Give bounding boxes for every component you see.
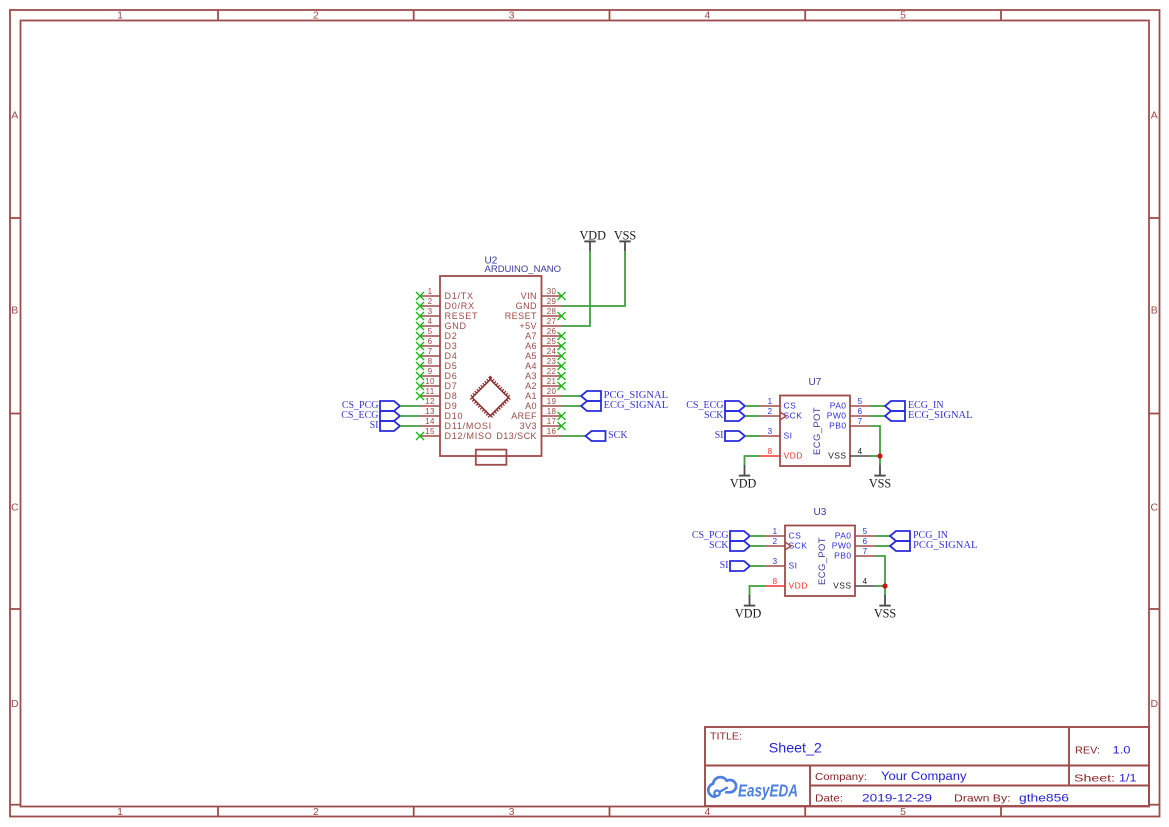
svg-text:5: 5 [900, 806, 906, 818]
svg-text:3V3: 3V3 [520, 421, 537, 431]
svg-text:22: 22 [547, 367, 557, 376]
svg-text:A1: A1 [525, 391, 537, 401]
svg-text:27: 27 [547, 317, 557, 326]
svg-text:7: 7 [428, 347, 433, 356]
svg-text:CS: CS [789, 531, 802, 541]
svg-text:Sheet:: Sheet: [1074, 773, 1115, 785]
wire CS_ECG flag to U7 [745, 405, 760, 407]
chip glyph of U2 [471, 378, 510, 417]
svg-text:A7: A7 [525, 331, 537, 341]
svg-text:8: 8 [768, 447, 773, 456]
net flag CS_ECG (left of U2) [341, 410, 400, 421]
net flag SI (left of U3) [720, 560, 750, 571]
svg-text:9: 9 [428, 367, 433, 376]
power flag VSS (U3) [874, 595, 897, 621]
svg-text:5: 5 [428, 327, 433, 336]
svg-text:4: 4 [863, 577, 868, 586]
svg-text:7: 7 [858, 417, 863, 426]
svg-text:U7: U7 [809, 377, 822, 388]
svg-text:+5V: +5V [519, 321, 537, 331]
svg-text:D0/RX: D0/RX [445, 301, 475, 311]
pin 14 (D11/MOSI) of U2 [420, 417, 492, 431]
svg-text:2: 2 [768, 407, 773, 416]
svg-text:SCK: SCK [709, 540, 729, 551]
pin 26 (A7) of U2 [525, 327, 565, 341]
svg-text:4: 4 [858, 447, 863, 456]
svg-text:5: 5 [858, 397, 863, 406]
svg-text:1: 1 [768, 397, 773, 406]
wire SCK flag to U3 [750, 545, 765, 547]
pin 6 (PW0) of U7 [827, 407, 870, 421]
svg-text:7: 7 [863, 547, 868, 556]
net flag SCK (left of U7) [704, 410, 745, 421]
wire U7 VDD pin to VDD power [745, 456, 761, 466]
svg-text:PB0: PB0 [834, 551, 851, 561]
svg-text:A3: A3 [525, 371, 537, 381]
pin 11 (D8) of U2 [416, 387, 458, 401]
svg-text:D6: D6 [445, 371, 458, 381]
title block [705, 727, 1149, 806]
wire VSS to U2 GND [562, 251, 626, 306]
net flag ECG_SIGNAL (right of U2) [581, 400, 668, 411]
svg-text:2: 2 [313, 806, 319, 818]
svg-text:6: 6 [428, 337, 433, 346]
svg-text:3: 3 [768, 427, 773, 436]
svg-text:D1/TX: D1/TX [445, 291, 474, 301]
svg-text:VSS: VSS [833, 581, 851, 591]
svg-text:3: 3 [509, 9, 515, 21]
svg-text:gthe856: gthe856 [1019, 793, 1069, 805]
svg-text:6: 6 [863, 537, 868, 546]
wire CS_ECG flag to U2 [400, 415, 420, 417]
net flag ECG_SIGNAL (right of U7) [885, 410, 973, 421]
pin 3 (SI) of U7 [760, 427, 792, 441]
IC U3 ECG_POT body [785, 526, 855, 597]
wire U3 to PCG_IN flag [875, 535, 890, 537]
svg-text:D7: D7 [445, 381, 458, 391]
junction at U7 VSS node [877, 453, 882, 458]
wire SCK flag to U7 [745, 415, 760, 417]
net flag CS_PCG (left of U2) [342, 400, 400, 411]
pin 3 (RESET) of U2 [416, 307, 478, 321]
svg-text:17: 17 [547, 417, 557, 426]
pin 20 (A1) of U2 [525, 387, 561, 401]
svg-text:ECG_POT: ECG_POT [817, 537, 828, 585]
svg-text:PA0: PA0 [835, 531, 852, 541]
pin 2 (SCK) of U7 [760, 407, 802, 421]
svg-text:PCG_SIGNAL: PCG_SIGNAL [913, 540, 978, 551]
svg-text:Sheet_2: Sheet_2 [769, 740, 822, 756]
svg-text:D3: D3 [445, 341, 458, 351]
svg-text:SI: SI [370, 420, 379, 431]
svg-text:ECG_POT: ECG_POT [812, 407, 823, 455]
pin 12 (D9) of U2 [420, 397, 458, 411]
svg-text:20: 20 [547, 387, 557, 396]
net flag SI (left of U2) [370, 420, 400, 431]
svg-text:SCK: SCK [608, 430, 628, 441]
svg-text:PA0: PA0 [830, 401, 847, 411]
wire U7 to ECG_SIGNAL flag [870, 415, 885, 417]
power flag VDD (U3) [735, 595, 762, 620]
wire U3 to PCG_SIGNAL flag [875, 545, 890, 547]
svg-text:VDD: VDD [579, 228, 606, 242]
pin 9 (D6) of U2 [416, 367, 458, 381]
svg-text:D13/SCK: D13/SCK [496, 431, 537, 441]
pin 4 (GND) of U2 [416, 317, 467, 331]
USB connector rect of U2 [476, 450, 507, 465]
svg-text:VDD: VDD [784, 451, 803, 461]
svg-text:A6: A6 [525, 341, 537, 351]
svg-text:D5: D5 [445, 361, 458, 371]
svg-text:U3: U3 [814, 507, 827, 518]
svg-text:PW0: PW0 [832, 541, 852, 551]
pin 2 (D0/RX) of U2 [416, 297, 475, 311]
svg-text:A: A [11, 109, 18, 121]
svg-text:D11/MOSI: D11/MOSI [445, 421, 492, 431]
pin 18 (AREF) of U2 [511, 407, 565, 421]
pin 16 (D13/SCK) of U2 [496, 427, 561, 441]
pin 17 (3V3) of U2 [520, 417, 566, 431]
svg-text:CS: CS [784, 401, 797, 411]
svg-text:AREF: AREF [511, 411, 537, 421]
wire SI flag to U7 [745, 435, 760, 437]
junction at U3 VSS node [882, 583, 887, 588]
net flag SCK (left of U3) [709, 540, 750, 551]
wire U3 PB0 to VSS power [875, 556, 885, 596]
wire U2 to SCK flag [562, 435, 586, 437]
pin 8 (VDD) of U7 [760, 447, 803, 461]
pin 23 (A4) of U2 [525, 357, 565, 371]
svg-text:2: 2 [773, 537, 778, 546]
svg-text:11: 11 [426, 387, 435, 396]
svg-text:VDD: VDD [735, 606, 762, 620]
pin 13 (D10) of U2 [420, 407, 463, 421]
svg-text:30: 30 [547, 287, 557, 296]
svg-text:VSS: VSS [869, 477, 892, 491]
pin 28 (RESET) of U2 [505, 307, 566, 321]
pin 15 (D12/MISO) of U2 [416, 427, 493, 441]
svg-text:25: 25 [547, 337, 557, 346]
svg-text:16: 16 [547, 427, 557, 436]
wire VDD to U2 +5V [562, 251, 591, 326]
svg-text:5: 5 [863, 527, 868, 536]
pin 1 (D1/TX) of U2 [416, 287, 474, 301]
wire U7 PB0 to VSS power [870, 426, 880, 466]
svg-text:D2: D2 [445, 331, 458, 341]
svg-text:19: 19 [547, 397, 557, 406]
svg-text:VDD: VDD [789, 581, 808, 591]
pin 25 (A6) of U2 [525, 337, 565, 351]
svg-text:Company:: Company: [815, 771, 867, 783]
pin 24 (A5) of U2 [525, 347, 565, 361]
svg-text:C: C [11, 501, 19, 513]
pin 7 (PB0) of U3 [834, 547, 875, 561]
pin 8 (VDD) of U3 [765, 577, 808, 591]
pin 5 (PA0) of U3 [835, 527, 875, 541]
svg-text:28: 28 [547, 307, 557, 316]
wire U7 to ECG_IN flag [870, 405, 885, 407]
svg-text:SI: SI [715, 430, 724, 441]
net flag ECG_IN (right of U7) [885, 400, 944, 411]
svg-text:A: A [1151, 109, 1158, 121]
wire SI flag to U3 [750, 565, 765, 567]
svg-text:D10: D10 [445, 411, 464, 421]
svg-text:ECG_SIGNAL: ECG_SIGNAL [908, 410, 973, 421]
net flag CS_ECG (left of U7) [686, 400, 745, 411]
svg-text:13: 13 [425, 407, 435, 416]
wire U2 to ECG_SIGNAL flag [562, 405, 582, 407]
net flag PCG_IN (right of U3) [890, 530, 948, 541]
svg-text:5: 5 [900, 9, 906, 21]
pin 4 (VSS) of U3 [833, 577, 875, 591]
svg-text:8: 8 [428, 357, 433, 366]
wire CS_PCG flag to U2 [400, 405, 420, 407]
svg-text:1/1: 1/1 [1119, 773, 1137, 785]
svg-text:1: 1 [773, 527, 778, 536]
svg-text:4: 4 [704, 9, 710, 21]
svg-text:RESET: RESET [445, 311, 479, 321]
power flag VDD (U7) [730, 465, 757, 490]
svg-text:B: B [1151, 304, 1158, 316]
svg-text:VDD: VDD [730, 476, 757, 490]
svg-text:A2: A2 [525, 381, 537, 391]
svg-text:14: 14 [425, 417, 435, 426]
svg-text:12: 12 [425, 397, 435, 406]
svg-text:2: 2 [428, 297, 433, 306]
svg-text:Date:: Date: [815, 793, 843, 805]
svg-text:A4: A4 [525, 361, 537, 371]
svg-text:29: 29 [547, 297, 557, 306]
svg-text:21: 21 [547, 377, 557, 386]
power flag VDD (top) [579, 228, 606, 251]
svg-text:8: 8 [773, 577, 778, 586]
svg-text:24: 24 [547, 347, 557, 356]
net flag SI (left of U7) [715, 430, 745, 441]
IC U2 ARDUINO_NANO body [440, 276, 542, 456]
pin 3 (SI) of U3 [765, 557, 797, 571]
svg-text:D4: D4 [445, 351, 458, 361]
svg-text:EasyEDA: EasyEDA [738, 781, 798, 801]
svg-text:ECG_SIGNAL: ECG_SIGNAL [604, 400, 669, 411]
svg-text:D12/MISO: D12/MISO [445, 431, 493, 441]
svg-text:VSS: VSS [874, 607, 897, 621]
svg-text:Your Company: Your Company [881, 771, 967, 783]
pin 21 (A2) of U2 [525, 377, 565, 391]
pin 29 (GND) of U2 [516, 297, 562, 311]
IC U7 ECG_POT body [780, 396, 850, 467]
svg-text:SCK: SCK [704, 410, 724, 421]
pin 6 (PW0) of U3 [832, 537, 875, 551]
pin 6 (D3) of U2 [416, 337, 458, 351]
svg-text:PB0: PB0 [829, 421, 846, 431]
wire U3 VDD pin to VDD power [750, 586, 766, 596]
svg-text:VSS: VSS [828, 451, 846, 461]
svg-text:D8: D8 [445, 391, 458, 401]
net flag PCG_SIGNAL (right of U3) [890, 540, 978, 551]
pin 30 (VIN) of U2 [521, 287, 566, 301]
wire SI flag to U2 [400, 425, 420, 427]
svg-text:10: 10 [425, 377, 435, 386]
svg-text:VIN: VIN [521, 291, 537, 301]
pin 10 (D7) of U2 [416, 377, 458, 391]
svg-text:1: 1 [117, 9, 123, 21]
svg-text:ARDUINO_NANO: ARDUINO_NANO [485, 264, 562, 275]
wire U3 VSS pin to junction [875, 585, 885, 587]
svg-text:C: C [1151, 501, 1159, 513]
svg-text:2: 2 [313, 9, 319, 21]
svg-text:PW0: PW0 [827, 411, 847, 421]
EasyEDA logo [708, 777, 798, 801]
svg-text:GND: GND [445, 321, 467, 331]
svg-text:18: 18 [547, 407, 557, 416]
svg-text:B: B [11, 304, 18, 316]
wire U2 to PCG_SIGNAL flag [562, 395, 582, 397]
svg-text:SI: SI [789, 561, 798, 571]
svg-text:RESET: RESET [505, 311, 537, 321]
svg-text:1.0: 1.0 [1113, 745, 1131, 757]
svg-text:6: 6 [858, 407, 863, 416]
pin 19 (A0) of U2 [525, 397, 561, 411]
svg-text:REV:: REV: [1075, 745, 1100, 757]
wire CS_PCG flag to U3 [750, 535, 765, 537]
pin 7 (D4) of U2 [416, 347, 458, 361]
pin 1 (CS) of U7 [760, 397, 796, 411]
pin 4 (VSS) of U7 [828, 447, 870, 461]
net flag CS_PCG (left of U3) [692, 530, 750, 541]
svg-text:SI: SI [720, 560, 729, 571]
svg-text:15: 15 [425, 427, 435, 436]
pin 2 (SCK) of U3 [765, 537, 807, 551]
net flag SCK (right of U2) [586, 430, 629, 441]
pin 8 (D5) of U2 [416, 357, 458, 371]
svg-text:A0: A0 [525, 401, 537, 411]
svg-text:2019-12-29: 2019-12-29 [862, 793, 932, 805]
svg-text:SI: SI [784, 431, 793, 441]
pin 5 (D2) of U2 [416, 327, 458, 341]
svg-text:D9: D9 [445, 401, 458, 411]
svg-text:GND: GND [516, 301, 537, 311]
svg-text:3: 3 [428, 307, 433, 316]
pin 7 (PB0) of U7 [829, 417, 870, 431]
pin 27 (+5V) of U2 [519, 317, 561, 331]
svg-text:3: 3 [773, 557, 778, 566]
pin 1 (CS) of U3 [765, 527, 801, 541]
pin 5 (PA0) of U7 [830, 397, 870, 411]
power flag VSS (U7) [869, 465, 892, 491]
svg-text:VSS: VSS [614, 228, 637, 242]
svg-text:1: 1 [428, 287, 433, 296]
wire U7 VSS pin to junction [870, 455, 880, 457]
svg-text:TITLE:: TITLE: [710, 731, 742, 742]
power flag VSS (top) [614, 228, 637, 251]
pin 22 (A3) of U2 [525, 367, 565, 381]
svg-text:D: D [11, 698, 19, 710]
svg-text:23: 23 [547, 357, 557, 366]
svg-text:3: 3 [509, 806, 515, 818]
net flag PCG_SIGNAL (right of U2) [581, 390, 668, 401]
svg-text:4: 4 [704, 806, 710, 818]
svg-text:26: 26 [547, 327, 557, 336]
svg-text:D: D [1151, 698, 1159, 710]
svg-text:1: 1 [117, 806, 123, 818]
svg-text:A5: A5 [525, 351, 537, 361]
svg-text:Drawn By:: Drawn By: [954, 793, 1011, 805]
svg-text:4: 4 [428, 317, 433, 326]
